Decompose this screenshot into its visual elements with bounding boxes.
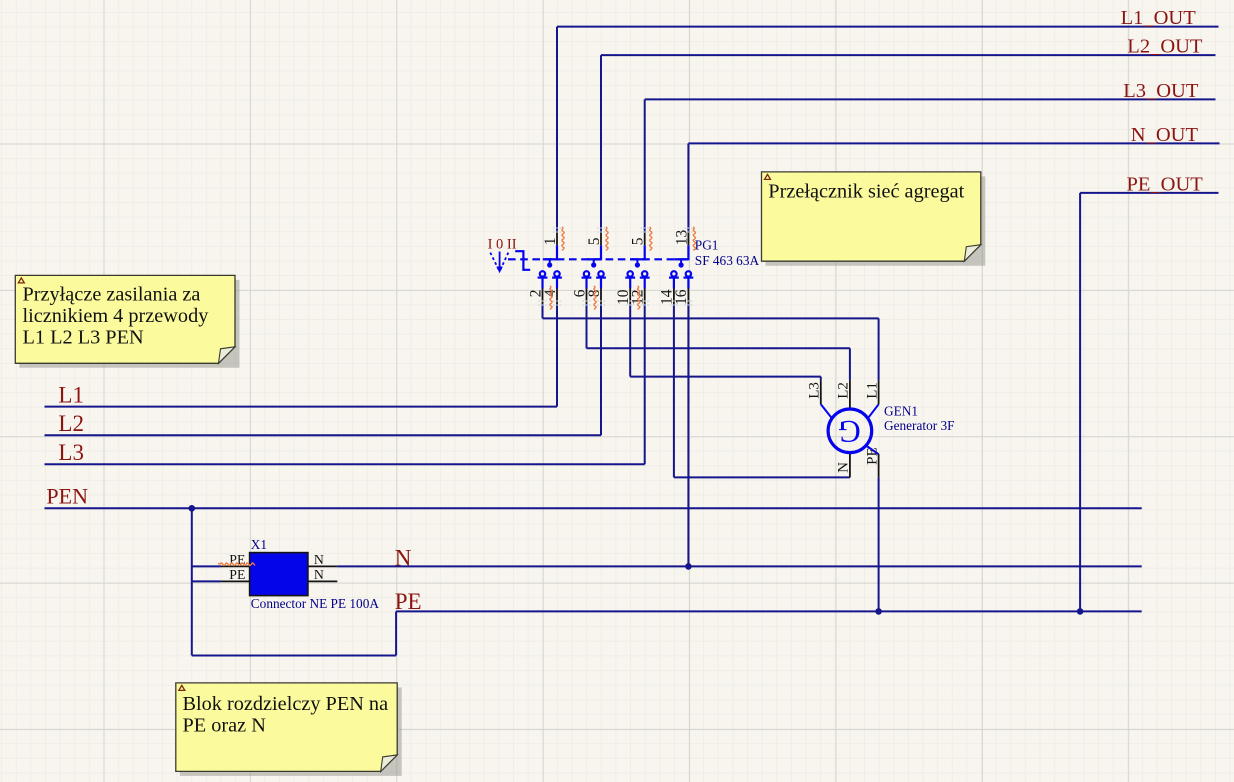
svg-text:13: 13 <box>673 230 690 246</box>
svg-text:N: N <box>314 552 324 567</box>
svg-text:PEN: PEN <box>46 484 88 509</box>
svg-text:12: 12 <box>630 290 647 306</box>
svg-text:G: G <box>838 414 861 449</box>
svg-text:Connector NE PE 100A: Connector NE PE 100A <box>251 596 380 611</box>
svg-text:N_OUT: N_OUT <box>1131 124 1199 146</box>
svg-text:Przełącznik sieć agregat: Przełącznik sieć agregat <box>768 181 964 203</box>
svg-text:L2: L2 <box>58 411 84 436</box>
svg-text:L1: L1 <box>864 382 880 399</box>
svg-text:L2: L2 <box>836 382 852 399</box>
svg-text:PE: PE <box>229 567 245 582</box>
svg-text:L3_OUT: L3_OUT <box>1123 80 1199 102</box>
svg-text:PE: PE <box>864 447 880 465</box>
svg-text:N: N <box>395 545 412 570</box>
svg-text:PE: PE <box>229 552 245 567</box>
svg-text:licznikiem 4 przewody: licznikiem 4 przewody <box>23 305 210 327</box>
svg-text:L1_OUT: L1_OUT <box>1121 7 1197 29</box>
svg-text:PE: PE <box>395 589 422 614</box>
svg-text:5: 5 <box>586 237 603 245</box>
svg-text:X1: X1 <box>251 537 267 552</box>
svg-text:N: N <box>836 462 852 473</box>
svg-text:L3: L3 <box>807 382 823 399</box>
svg-text:PG1: PG1 <box>695 238 719 253</box>
svg-text:PE oraz N: PE oraz N <box>183 715 267 737</box>
svg-text:I 0 II: I 0 II <box>488 237 517 253</box>
svg-text:16: 16 <box>673 289 690 305</box>
svg-text:L3: L3 <box>58 440 84 465</box>
svg-text:Generator 3F: Generator 3F <box>884 418 955 433</box>
svg-text:L2_OUT: L2_OUT <box>1127 36 1203 58</box>
svg-text:5: 5 <box>630 237 647 245</box>
svg-text:L1: L1 <box>58 382 84 407</box>
svg-text:Przyłącze zasilania za: Przyłącze zasilania za <box>23 284 201 306</box>
svg-text:Blok rozdzielczy PEN na: Blok rozdzielczy PEN na <box>183 693 389 715</box>
svg-text:PE_OUT: PE_OUT <box>1127 173 1204 195</box>
svg-text:GEN1: GEN1 <box>884 404 918 419</box>
svg-text:1: 1 <box>542 238 559 246</box>
svg-text:L1 L2 L3 PEN: L1 L2 L3 PEN <box>23 327 144 349</box>
svg-text:SF 463 63A: SF 463 63A <box>695 253 760 268</box>
svg-text:N: N <box>314 567 324 582</box>
